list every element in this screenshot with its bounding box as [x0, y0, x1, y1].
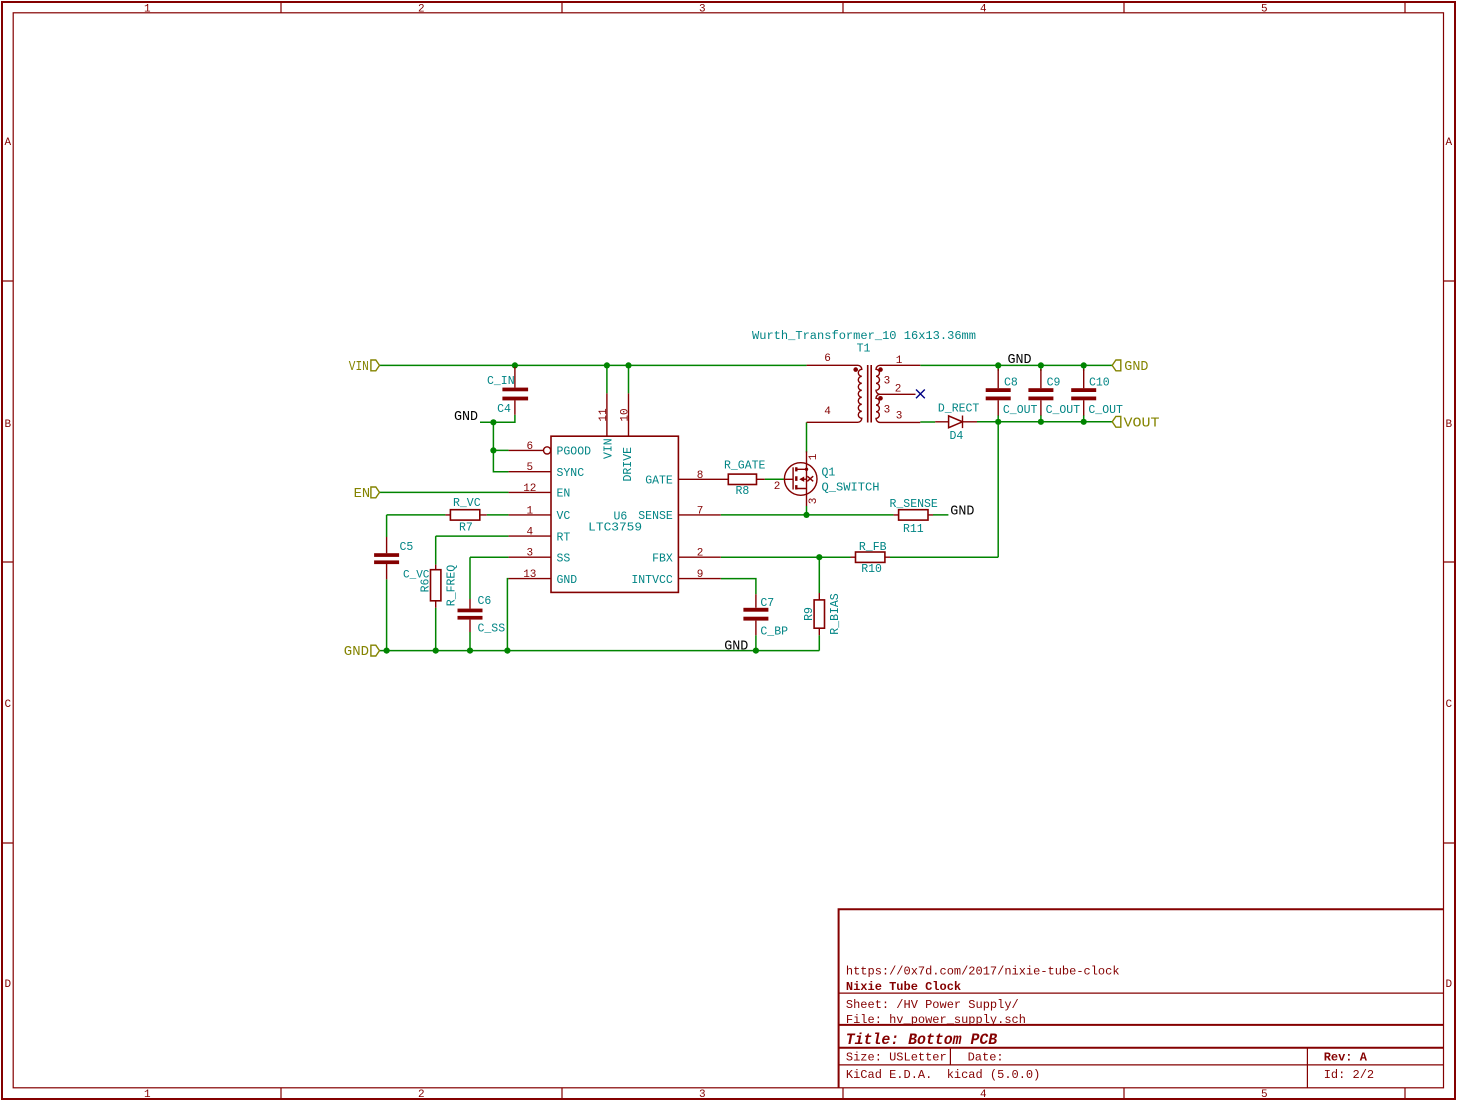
svg-text:VOUT: VOUT — [1124, 416, 1160, 431]
svg-text:DRIVE: DRIVE — [622, 447, 635, 482]
svg-text:VC: VC — [557, 510, 571, 523]
svg-text:R11: R11 — [903, 523, 924, 536]
svg-text:C8: C8 — [1004, 377, 1018, 390]
svg-text:FBX: FBX — [652, 553, 673, 566]
svg-text:SS: SS — [557, 553, 571, 566]
svg-text:Size: USLetter: Size: USLetter — [846, 1051, 947, 1065]
svg-text:B: B — [1446, 419, 1453, 431]
svg-text:C_BP: C_BP — [760, 625, 788, 638]
svg-text:13: 13 — [523, 569, 536, 581]
svg-text:11: 11 — [598, 408, 610, 422]
svg-text:C7: C7 — [760, 597, 774, 610]
svg-text:4: 4 — [980, 1089, 987, 1101]
svg-text:6: 6 — [526, 441, 533, 453]
svg-text:GND: GND — [1124, 360, 1148, 375]
svg-text:R9: R9 — [803, 607, 816, 621]
svg-text:2: 2 — [774, 481, 781, 493]
svg-text:D4: D4 — [950, 430, 964, 443]
svg-text:INTVCC: INTVCC — [631, 574, 673, 587]
svg-text:C4: C4 — [497, 403, 511, 416]
svg-text:Sheet: /HV Power Supply/: Sheet: /HV Power Supply/ — [846, 998, 1019, 1012]
svg-text:4: 4 — [526, 527, 533, 539]
svg-text:10: 10 — [620, 408, 632, 421]
svg-text:3: 3 — [808, 498, 820, 505]
svg-text:1: 1 — [144, 1089, 151, 1101]
svg-text:3: 3 — [896, 411, 903, 423]
svg-text:R8: R8 — [736, 485, 750, 498]
svg-text:R_FREQ: R_FREQ — [446, 565, 459, 607]
svg-text:LTC3759: LTC3759 — [588, 522, 642, 535]
svg-text:2: 2 — [697, 548, 704, 560]
svg-text:7: 7 — [697, 505, 704, 517]
svg-text:C10: C10 — [1089, 377, 1110, 390]
svg-text:GND: GND — [344, 645, 369, 660]
svg-text:C_OUT: C_OUT — [1003, 404, 1038, 417]
svg-text:EN: EN — [557, 488, 571, 501]
svg-text:GND: GND — [950, 504, 974, 519]
svg-text:4: 4 — [824, 406, 831, 418]
svg-text:File: hv_power_supply.sch: File: hv_power_supply.sch — [846, 1013, 1026, 1027]
svg-text:6: 6 — [824, 353, 831, 365]
svg-text:Q1: Q1 — [822, 466, 836, 479]
svg-text:A: A — [5, 137, 12, 149]
svg-text:C9: C9 — [1047, 377, 1061, 390]
svg-text:5: 5 — [526, 462, 533, 474]
svg-text:R_VC: R_VC — [453, 497, 481, 510]
svg-text:1: 1 — [144, 4, 151, 16]
svg-text:Q_SWITCH: Q_SWITCH — [822, 481, 880, 494]
svg-text:R7: R7 — [459, 521, 473, 534]
svg-text:T1: T1 — [857, 343, 871, 356]
svg-text:8: 8 — [697, 470, 704, 482]
svg-text:R10: R10 — [861, 563, 882, 576]
svg-text:GND: GND — [1008, 353, 1032, 368]
svg-text:PGOOD: PGOOD — [557, 446, 592, 459]
svg-text:C_OUT: C_OUT — [1088, 404, 1123, 417]
svg-text:2: 2 — [418, 1089, 425, 1101]
svg-text:RT: RT — [557, 531, 571, 544]
svg-text:Rev: A: Rev: A — [1324, 1051, 1368, 1065]
svg-text:EN: EN — [354, 487, 371, 502]
svg-text:5: 5 — [1261, 1089, 1268, 1101]
svg-text:Title: Bottom PCB: Title: Bottom PCB — [846, 1031, 998, 1049]
svg-text:Id: 2/2: Id: 2/2 — [1324, 1068, 1374, 1082]
svg-text:3: 3 — [699, 4, 706, 16]
svg-text:1: 1 — [526, 505, 533, 517]
svg-text:3: 3 — [884, 405, 891, 417]
svg-text:2: 2 — [895, 384, 902, 396]
svg-text:SENSE: SENSE — [638, 510, 673, 523]
svg-text:C6: C6 — [478, 595, 492, 608]
svg-text:4: 4 — [980, 4, 987, 16]
svg-text:R6: R6 — [420, 579, 433, 593]
svg-text:5: 5 — [1261, 4, 1268, 16]
svg-text:VIN: VIN — [349, 360, 369, 375]
svg-text:D: D — [5, 979, 12, 991]
svg-text:C_OUT: C_OUT — [1046, 404, 1081, 417]
svg-text:D_RECT: D_RECT — [938, 403, 980, 416]
svg-text:3: 3 — [884, 376, 891, 388]
svg-text:1: 1 — [808, 453, 820, 460]
svg-text:C: C — [5, 699, 12, 711]
svg-text:Nixie Tube Clock: Nixie Tube Clock — [846, 980, 961, 994]
svg-text:Date:: Date: — [968, 1051, 1004, 1065]
svg-text:GND: GND — [724, 640, 748, 655]
svg-text:C_IN: C_IN — [487, 375, 515, 388]
svg-text:GND: GND — [454, 410, 478, 425]
svg-text:Wurth_Transformer_10 16x13.36m: Wurth_Transformer_10 16x13.36mm — [752, 330, 976, 343]
svg-text:R_SENSE: R_SENSE — [890, 498, 938, 511]
svg-text:GND: GND — [557, 574, 578, 587]
svg-text:R_GATE: R_GATE — [724, 460, 766, 473]
svg-text:A: A — [1446, 137, 1453, 149]
svg-text:D: D — [1446, 979, 1453, 991]
svg-text:C: C — [1446, 699, 1453, 711]
svg-text:KiCad E.D.A. kicad (5.0.0): KiCad E.D.A. kicad (5.0.0) — [846, 1068, 1040, 1082]
svg-text:9: 9 — [697, 569, 704, 581]
svg-text:R_FB: R_FB — [859, 541, 887, 554]
svg-text:3: 3 — [526, 548, 533, 560]
svg-text:C5: C5 — [400, 541, 414, 554]
svg-text:3: 3 — [699, 1089, 706, 1101]
svg-text:C_SS: C_SS — [478, 623, 506, 636]
svg-text:https://0x7d.com/2017/nixie-tu: https://0x7d.com/2017/nixie-tube-clock — [846, 965, 1120, 979]
svg-text:12: 12 — [523, 483, 536, 495]
svg-text:VIN: VIN — [602, 438, 615, 459]
svg-text:SYNC: SYNC — [557, 467, 585, 480]
svg-text:R_BIAS: R_BIAS — [829, 593, 842, 635]
svg-text:GATE: GATE — [645, 475, 673, 488]
svg-text:1: 1 — [896, 355, 903, 367]
svg-text:2: 2 — [418, 4, 425, 16]
svg-text:B: B — [5, 419, 12, 431]
